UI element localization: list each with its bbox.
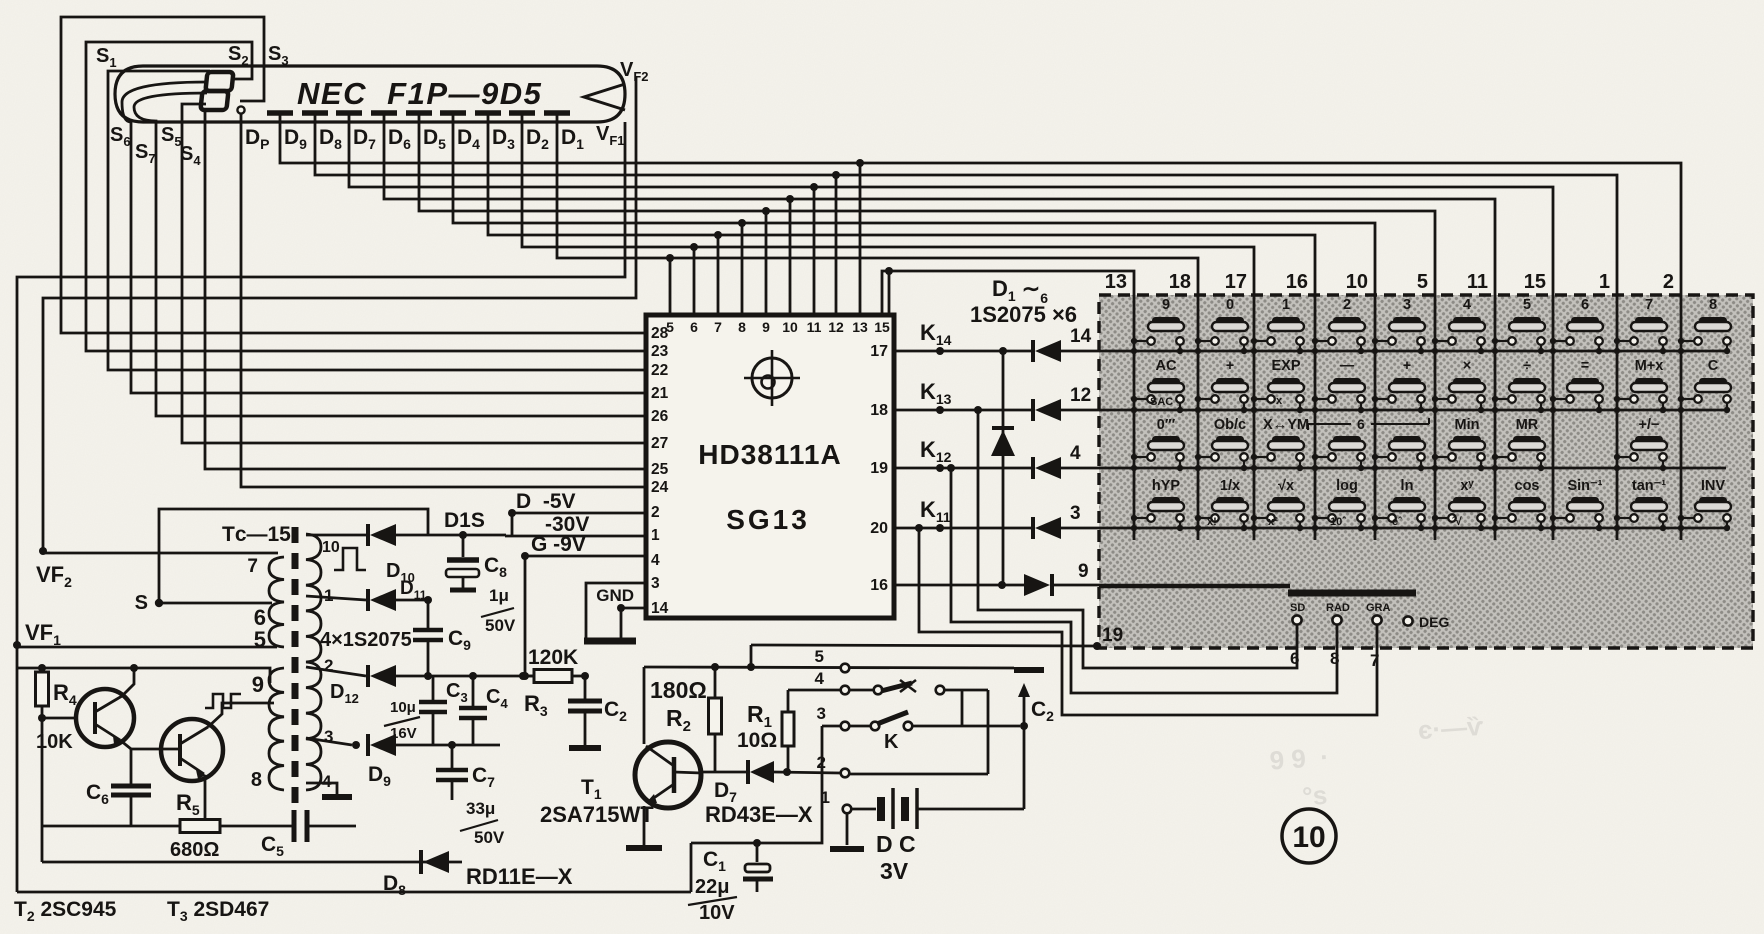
resistor R4 (36, 668, 49, 862)
wire pin 3 to ground (586, 583, 646, 640)
svg-text:tan⁻¹: tan⁻¹ (1632, 478, 1666, 494)
digit anode D9 bar (267, 110, 293, 116)
key row4 col2 1/x (1195, 478, 1248, 531)
open contact 5 (841, 664, 850, 673)
key row2 col5 + (1372, 358, 1425, 413)
battery DC 3V (877, 788, 1024, 829)
wire keyboard column 15 (1552, 295, 1555, 540)
wire VF1 branch to winding tap5 (17, 646, 277, 649)
svg-text:NEC F1P—9D5: NEC F1P—9D5 (297, 76, 542, 111)
svg-text:RD11E—X: RD11E—X (466, 864, 573, 889)
svg-text:RAD: RAD (1326, 602, 1350, 614)
key row4 col4 log (1312, 478, 1365, 531)
digit anode D6 bar (371, 110, 397, 116)
svg-text:x!: x! (1207, 516, 1217, 528)
wire S3 outer loop (61, 17, 646, 333)
wire SD to pin 6 (978, 410, 1297, 668)
wire digit D9 to bus (280, 113, 1681, 295)
svg-text:10V: 10V (699, 902, 735, 924)
keyboard matrix shaded panel (1099, 295, 1753, 648)
key row2 col1 AC (1131, 358, 1184, 413)
key row3 col4 blank (1312, 436, 1365, 471)
svg-text:18: 18 (870, 402, 888, 419)
diode D2 1S2075 (1031, 399, 1035, 421)
svg-text:4: 4 (1463, 297, 1471, 313)
svg-text:7: 7 (1645, 297, 1653, 313)
key row4 col5 ln (1372, 478, 1425, 531)
svg-text:3V: 3V (880, 858, 909, 884)
svg-text:xʸ: xʸ (1460, 478, 1474, 494)
wire S7 curl (134, 93, 646, 416)
7-segment digit symbol (200, 72, 233, 110)
key row2 col7 &#247; (1492, 358, 1545, 413)
capacitor C7 (436, 745, 468, 800)
DEG contact (1403, 616, 1412, 625)
svg-text:0: 0 (1226, 297, 1234, 313)
wire keyboard row K11 (1099, 527, 1726, 530)
wire keyboard column 13 (1133, 295, 1136, 540)
diode D6 1S2075 (row 9) (1024, 574, 1050, 596)
svg-text:HD38111A: HD38111A (698, 439, 841, 470)
svg-text:=: = (1581, 358, 1589, 374)
svg-text:19: 19 (1102, 625, 1123, 646)
wire tap10 to D10 (306, 534, 366, 537)
wire IC top pin riser (741, 223, 744, 315)
wire R3 line (523, 675, 534, 678)
svg-text:3: 3 (817, 704, 826, 723)
svg-text:√x: √x (1278, 478, 1294, 494)
diode D11 (366, 589, 370, 611)
svg-text:1: 1 (1282, 297, 1290, 313)
capacitor C9 (413, 600, 443, 676)
svg-text:SD: SD (1290, 602, 1305, 614)
capacitor C4 (459, 676, 487, 745)
svg-text:10: 10 (782, 319, 798, 335)
resistor R2 (709, 667, 722, 772)
wire K14 row line (894, 350, 1033, 353)
wire D -5V rail to pin 2 (512, 513, 646, 536)
wire tap4 to ground (306, 783, 337, 794)
svg-text:M+x: M+x (1635, 358, 1664, 374)
wire G -9V rail to pin 4 (525, 556, 646, 676)
resistor R3 120K (534, 670, 572, 683)
digit anode D2 bar (509, 110, 535, 116)
wire IC top pin riser (813, 187, 816, 315)
wire 5-line terminator (1014, 667, 1044, 673)
svg-text:16: 16 (870, 577, 888, 594)
key row1 col2 0 (1195, 297, 1248, 354)
wire keyboard column 1 (1616, 295, 1619, 540)
svg-text:120K: 120K (528, 646, 578, 669)
secondary winding (306, 534, 321, 790)
svg-text:3: 3 (1403, 297, 1411, 313)
svg-text:1: 1 (651, 527, 660, 544)
transistor T2 2SC945 (76, 689, 134, 747)
svg-text:K: K (884, 731, 899, 753)
transistor T1 2SA715WT (635, 742, 701, 808)
svg-text:10: 10 (322, 539, 340, 556)
wire keyboard column 2 (1680, 295, 1683, 540)
wire VF2 from tube to transformer tap7 (43, 77, 636, 551)
key row4 col9 tan&#8315;&#185; (1614, 478, 1667, 531)
label -6- annotation row3 (1308, 416, 1429, 432)
svg-text:5: 5 (1417, 271, 1428, 293)
wire VF1 from tube to transformer (17, 122, 625, 892)
diode D12 (366, 665, 370, 687)
wire T2 base (42, 717, 77, 720)
wire T1 to ground (643, 806, 646, 845)
key row1 col1 9 (1131, 297, 1184, 354)
key row4 col1 hYP (1131, 478, 1184, 531)
svg-text:x: x (1276, 395, 1283, 407)
wire GRA to pin 7 (919, 528, 1377, 715)
wire -30V line to pin 1 (505, 535, 646, 538)
wire tap1 to D11 (306, 596, 366, 600)
key row3 col2 Ob/c (1195, 417, 1248, 471)
svg-text:1μ: 1μ (489, 586, 509, 605)
key row3 col5 blank (1372, 436, 1425, 471)
svg-text:2: 2 (1343, 297, 1351, 313)
svg-text:19: 19 (870, 460, 888, 477)
svg-text:9: 9 (1078, 561, 1089, 582)
svg-text:SG13: SG13 (726, 504, 810, 535)
svg-text:21: 21 (651, 385, 669, 402)
svg-text:EXP: EXP (1271, 358, 1300, 374)
svg-text:1/x: 1/x (1220, 478, 1240, 494)
wire IC top pin riser (859, 163, 862, 315)
wire node to C6 (130, 749, 133, 784)
svg-text:D C: D C (876, 831, 916, 857)
transistor T3 2SD467 (161, 719, 223, 781)
wire S4 (205, 111, 646, 469)
key row3 col7 MR (1492, 417, 1545, 471)
svg-text:0′′′: 0′′′ (1157, 417, 1176, 433)
switch K line 3 (822, 712, 1020, 730)
key row1 col7 5 (1492, 297, 1545, 354)
wire digit D2 to bus (522, 113, 1254, 295)
svg-text:12: 12 (828, 319, 844, 335)
key row4 col6 x&#696; (1432, 478, 1485, 531)
ground at tap4 (322, 794, 352, 800)
wire pin15 to keyboard column 13 (882, 271, 1134, 315)
svg-text:AC: AC (1156, 358, 1177, 374)
svg-text:10μ: 10μ (390, 699, 416, 716)
svg-text:25: 25 (651, 461, 669, 478)
svg-text:3: 3 (1070, 503, 1081, 524)
svg-text:17: 17 (870, 343, 888, 360)
svg-text:SAC: SAC (1150, 396, 1173, 408)
svg-text:—: — (1340, 358, 1355, 374)
svg-text:50V: 50V (474, 828, 505, 847)
VFD display tube NEC FIP-9D5 (115, 66, 625, 122)
wire keyboard row K12 (1099, 467, 1726, 470)
wire D9 output (396, 744, 500, 747)
key row1 col10 8 (1678, 297, 1731, 354)
svg-text:GND: GND (596, 586, 634, 605)
wire keyboard column 10 (1374, 295, 1377, 540)
svg-text:D1S: D1S (444, 509, 485, 532)
svg-text:9: 9 (1162, 297, 1170, 313)
svg-text:Ob/c: Ob/c (1214, 417, 1246, 433)
wire keyboard row K13 (1099, 409, 1726, 412)
svg-text:50V: 50V (485, 616, 516, 635)
svg-text:6: 6 (690, 319, 698, 335)
svg-text:4: 4 (651, 552, 660, 569)
wire digit D3 to bus (488, 113, 1315, 295)
svg-text:×: × (1463, 358, 1471, 374)
svg-text:1: 1 (1599, 271, 1610, 293)
svg-text:eˆ: eˆ (1392, 516, 1402, 528)
label 1u/50V (481, 586, 516, 635)
svg-text:7: 7 (714, 319, 722, 335)
svg-text:27: 27 (651, 435, 668, 452)
key row1 col3 1 (1251, 297, 1304, 354)
svg-text:hYP: hYP (1152, 478, 1181, 494)
diode D9 (366, 734, 370, 756)
tiny sublabels row4 (1207, 516, 1463, 528)
wire branch to K14 (888, 271, 891, 351)
label 10u/16V (384, 699, 420, 742)
svg-text:10K: 10K (36, 731, 73, 753)
primary winding upper (269, 557, 284, 647)
wire IC top pin riser (693, 247, 696, 315)
wire keyboard column 17 (1253, 295, 1256, 540)
svg-text:15: 15 (1524, 271, 1546, 293)
capacitor C2 (568, 676, 602, 748)
wire node to T3 base (131, 748, 180, 751)
wire DP to pin 24 (241, 114, 646, 487)
wire D8 line (42, 861, 462, 864)
svg-text:cos: cos (1515, 478, 1540, 494)
svg-text:5: 5 (815, 647, 824, 666)
digit anode D5 bar (406, 110, 432, 116)
wire IC top pin riser (765, 211, 768, 315)
svg-text:2: 2 (651, 504, 660, 521)
wire K13 row line (894, 409, 1033, 412)
capacitor C8 (446, 535, 479, 590)
svg-text:8: 8 (251, 769, 262, 791)
svg-text:4: 4 (322, 772, 332, 791)
svg-text:6: 6 (1581, 297, 1589, 313)
wire IC top pin riser (789, 199, 792, 315)
wire digit D8 to bus (315, 113, 1617, 295)
wire IC top pin riser (669, 258, 672, 315)
svg-text:D -5V: D -5V (516, 490, 576, 513)
wire tap3 to D9 (306, 738, 352, 745)
key row2 col9 M+x (1614, 358, 1667, 413)
svg-text:20: 20 (870, 520, 888, 537)
capacitor C5 (294, 810, 356, 842)
svg-text:X↔YM: X↔YM (1263, 417, 1309, 433)
svg-text:5: 5 (254, 627, 266, 652)
svg-text:MR: MR (1516, 417, 1539, 433)
svg-text:1S2075 ×6: 1S2075 ×6 (970, 302, 1077, 327)
svg-text:9 9 ·: 9 9 · (1269, 742, 1330, 776)
wire T3 emitter (204, 775, 207, 826)
svg-text:INV: INV (1701, 478, 1726, 494)
digit anode D3 bar (475, 110, 501, 116)
key row3 col1 0&#8242;&#8242;&#8242; (1131, 417, 1184, 471)
wire digit D1 to bus (557, 113, 1198, 295)
wire tap2 to D12 (306, 667, 366, 676)
transformer frame box (159, 509, 428, 603)
diode D7 RD43E-X (748, 760, 774, 784)
wire S5 (182, 104, 646, 443)
capacitor C1 electrolytic (743, 843, 773, 892)
svg-text:Min: Min (1455, 417, 1480, 433)
svg-text:180Ω: 180Ω (650, 677, 707, 703)
transformer core (292, 527, 299, 803)
keyboard column numbers (1105, 271, 1674, 293)
wire S6 curl (122, 82, 646, 393)
svg-text:4: 4 (815, 669, 825, 688)
wire driver top line (644, 667, 1014, 668)
svg-text:15: 15 (874, 319, 890, 335)
wire T1 emitter line (701, 771, 748, 774)
svg-text:7: 7 (247, 556, 258, 577)
wire S to winding (159, 602, 272, 605)
wire riser to node19 line (750, 645, 753, 667)
svg-text:÷: ÷ (1523, 358, 1531, 374)
wire K11 row line (894, 527, 1033, 530)
key row3 col6 Min (1432, 417, 1485, 471)
svg-text:Tс—15: Tс—15 (222, 523, 291, 546)
svg-text:17: 17 (1225, 271, 1247, 293)
wire T1 collector drop (643, 667, 646, 744)
wire S2 loop (86, 42, 646, 351)
svg-text:4×1S2075: 4×1S2075 (320, 629, 412, 651)
svg-text:23: 23 (651, 343, 669, 360)
resistor R5 (180, 820, 220, 833)
svg-text:9: 9 (252, 672, 264, 697)
wire digit D7 to bus (349, 113, 1553, 295)
svg-text:8: 8 (738, 319, 746, 335)
wire top rail of oscillator (17, 668, 270, 683)
key row1 col8 6 (1550, 297, 1603, 354)
svg-text:22: 22 (651, 362, 668, 379)
key row1 col4 2 (1312, 297, 1365, 354)
svg-text:10ˆ: 10ˆ (1330, 516, 1346, 528)
wire C1 drop (690, 843, 693, 892)
wire node 19 line (751, 645, 1097, 646)
digit anode D8 bar (302, 110, 328, 116)
wire keyboard column 16 (1314, 295, 1317, 540)
wire T3 collector (208, 703, 274, 727)
wire digit D4 to bus (453, 113, 1375, 295)
svg-text:+/−: +/− (1639, 417, 1660, 433)
svg-text:RD43E—X: RD43E—X (705, 802, 813, 827)
wire RAD to pin 8 (951, 468, 1337, 693)
IC U1 HD38111A SG13 (646, 315, 894, 618)
svg-text:24: 24 (651, 479, 669, 496)
digit anode D1 bar (544, 110, 570, 116)
wire keyboard row K14 (1099, 350, 1726, 353)
key row1 col5 3 (1372, 297, 1425, 354)
wire digit D6 to bus (384, 113, 1495, 295)
capacitor C3 (419, 676, 447, 745)
wire digit D5 to bus (419, 113, 1435, 295)
svg-text:x²: x² (1268, 516, 1278, 528)
label 33u/50V (460, 799, 505, 847)
key row3 col9 +/&#8722; (1614, 417, 1667, 471)
svg-text:11: 11 (1467, 271, 1488, 293)
wire K12 row line (894, 467, 1033, 470)
svg-text:ln: ln (1401, 478, 1414, 494)
key row2 col10 C (1678, 358, 1731, 413)
diode D8 (421, 850, 449, 874)
svg-text:18: 18 (1169, 271, 1191, 293)
wire keyboard column 5 (1434, 295, 1437, 540)
capacitor C6 (111, 786, 151, 826)
square wave symbol T3 (205, 694, 241, 708)
diode D10 (366, 524, 370, 546)
wire S1 (108, 71, 646, 370)
key row2 col6 &#215; (1432, 358, 1485, 413)
wire IC top pin riser (717, 235, 720, 315)
figure number 10 (1282, 809, 1336, 863)
svg-text:Sin⁻¹: Sin⁻¹ (1567, 478, 1602, 494)
svg-text:4: 4 (1070, 443, 1081, 464)
mode switch bar SD RAD GRA (1099, 586, 1416, 625)
svg-text:C: C (1708, 358, 1719, 374)
svg-text:8: 8 (1709, 297, 1717, 313)
key row2 col8 = (1550, 358, 1603, 413)
ground T1 (626, 845, 662, 851)
diode D1 1S2075 (1031, 340, 1035, 362)
key row2 col3 EXP (1251, 358, 1304, 413)
key row4 col8 Sin&#8315;&#185; (1550, 478, 1603, 531)
svg-text:7: 7 (1370, 651, 1379, 670)
square wave symbol (334, 548, 366, 570)
decimal point electrode (237, 106, 244, 113)
svg-text:°ѕ: °ѕ (1301, 780, 1328, 812)
wire bottom long rail (17, 891, 691, 894)
switch line 4 (788, 680, 988, 694)
diode D4 1S2075 (1031, 517, 1035, 539)
diode D3 1S2075 (1031, 457, 1035, 479)
resistor R1 (782, 690, 794, 772)
svg-text:11: 11 (807, 319, 822, 335)
svg-text:13: 13 (852, 319, 868, 335)
wire D12 output to R3 (396, 675, 534, 678)
wire battery to C2 arrow (1018, 683, 1030, 809)
switch line 2 (841, 690, 988, 777)
label 22u/10V (688, 876, 737, 924)
primary winding lower (269, 668, 284, 790)
svg-text:1: 1 (324, 586, 333, 605)
svg-text:10Ω: 10Ω (737, 729, 777, 752)
IC registration target symbol (744, 350, 800, 406)
wire link 4-3 (961, 690, 964, 726)
svg-text:10: 10 (1346, 271, 1368, 293)
wire D7 to contact 2 (774, 772, 840, 773)
svg-text:+: + (1403, 358, 1411, 374)
svg-text:6: 6 (1357, 416, 1365, 432)
svg-text:28: 28 (651, 325, 669, 342)
wire pin 14 to ground (621, 607, 646, 610)
svg-text:ˆ√: ˆ√ (1452, 516, 1463, 528)
diode D5 vertical branch (991, 347, 1015, 585)
key row4 col7 cos (1492, 478, 1545, 531)
svg-text:9: 9 (762, 319, 770, 335)
svg-text:3: 3 (651, 575, 660, 592)
svg-text:22μ: 22μ (695, 876, 729, 898)
ground below IC (584, 638, 636, 645)
wire 3-line to C1 rail (691, 726, 822, 843)
svg-text:G -9V: G -9V (531, 533, 586, 556)
svg-text:log: log (1336, 478, 1358, 494)
key row3 col3 X&#8596;YM (1251, 417, 1309, 471)
